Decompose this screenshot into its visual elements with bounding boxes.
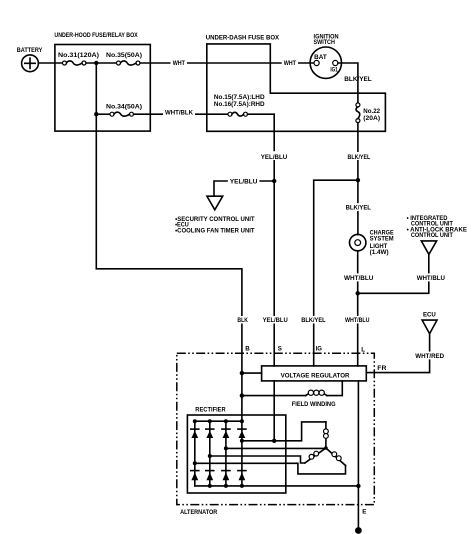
wire E from regulator to ground: [357, 381, 359, 530]
arrow from ECU: [422, 320, 437, 334]
ignition switch: [310, 33, 341, 78]
wire YEL/BLU from fuse down to regulator S: [248, 114, 275, 366]
node E bus junction: [356, 484, 360, 488]
svg-text:FR: FR: [377, 365, 387, 372]
wire B stub to regulator: [242, 372, 262, 374]
wire BLK: down from junction, to alternator B: [96, 63, 242, 421]
wire WHT/BLU from charge light to alternator L: [357, 251, 359, 366]
arrow to security control unit: [207, 196, 223, 210]
wire branch to integrated control unit arrow: [358, 255, 429, 294]
svg-text:SWITCH: SWITCH: [314, 39, 336, 46]
stator winding left coil: [305, 448, 326, 463]
stator winding top coil: [324, 422, 329, 448]
diode column 2: [206, 421, 214, 486]
rectifier box: [187, 406, 285, 493]
svg-text:BLK: BLK: [237, 317, 248, 324]
svg-text:E: E: [362, 508, 366, 515]
svg-text:WHT/BLU: WHT/BLU: [417, 275, 446, 282]
svg-text:WHT/BLU: WHT/BLU: [344, 275, 374, 282]
svg-text:BLK/YEL: BLK/YEL: [344, 76, 372, 83]
wire main WHT into ignition switch: [207, 62, 314, 64]
wire BLK/YEL down to charge light: [357, 123, 359, 235]
svg-text:S: S: [278, 346, 282, 353]
svg-text:VOLTAGE REGULATOR: VOLTAGE REGULATOR: [281, 373, 350, 380]
svg-text:WHT: WHT: [173, 60, 185, 67]
svg-text:No.34(50A): No.34(50A): [106, 103, 142, 110]
voltage regulator U1: [262, 366, 367, 381]
wire bottom bus: [195, 485, 359, 487]
svg-text:BLK/YEL: BLK/YEL: [348, 154, 371, 161]
arrow to integrated control unit / abs control unit: [421, 241, 436, 255]
wire battery to under-hood box: [38, 62, 62, 64]
svg-text:L: L: [361, 346, 365, 353]
wire neutral (col3) to stator centre: [226, 447, 326, 449]
svg-text:ECU: ECU: [423, 312, 436, 319]
wire WHT to under-dash box: [140, 62, 207, 64]
svg-text:IG1: IG1: [330, 67, 338, 74]
fuse No.22(20A): [356, 103, 381, 123]
node S sense tap: [272, 439, 276, 443]
wire YEL/BLU branch to arrow: [214, 181, 274, 196]
svg-text:UNDER-HOOD FUSE/RELAY BOX: UNDER-HOOD FUSE/RELAY BOX: [54, 32, 138, 39]
wire WHT/RED FR from ECU to regulator: [366, 334, 429, 373]
battery: [17, 47, 43, 71]
node stator centre: [324, 446, 328, 450]
svg-text:BLK/YEL: BLK/YEL: [346, 205, 371, 212]
fuse No.34(50A): [106, 103, 142, 116]
stator winding right coil: [326, 448, 346, 466]
node junction under-hood lower wire: [94, 112, 98, 116]
node YEL/BLU branch: [272, 179, 276, 183]
svg-text:(1.4W): (1.4W): [370, 249, 389, 256]
under-hood fuse/relay box: [54, 32, 150, 131]
svg-text:•COOLING FAN TIMER UNIT: •COOLING FAN TIMER UNIT: [175, 228, 255, 235]
svg-text:No.22: No.22: [363, 108, 380, 115]
svg-text:BLK/YEL: BLK/YEL: [301, 317, 326, 324]
wire top bus: [195, 420, 242, 422]
diode column 3: [222, 421, 230, 486]
label integrated/anti-lock list: [407, 215, 467, 239]
wire branch to alternator IG: [314, 180, 358, 366]
svg-text:WHT/RED: WHT/RED: [415, 353, 444, 360]
fuse No.31(120A): [58, 52, 99, 65]
wire between fuses: [86, 62, 117, 64]
svg-text:BATTERY: BATTERY: [17, 47, 43, 54]
wire phase 2 (col2) to stator left coil: [210, 456, 305, 463]
svg-text:ALTERNATOR: ALTERNATOR: [180, 509, 218, 516]
node WHT/BLU branch: [356, 291, 360, 295]
fuse No.15(7.5A)/No.16(7.5A): [214, 94, 265, 116]
label security/ecu/cooling list: [175, 216, 255, 235]
node BLK/YEL branch: [356, 178, 360, 182]
svg-text:CONTROL UNIT: CONTROL UNIT: [411, 232, 453, 239]
svg-text:SYSTEM: SYSTEM: [370, 236, 394, 243]
wire labels above alternator: [236, 316, 371, 324]
svg-text:YEL/BLU: YEL/BLU: [261, 154, 288, 161]
node bottom bus junctions: [208, 484, 244, 488]
node B field tap: [240, 393, 244, 397]
ground: [355, 527, 362, 534]
diode column 1: [191, 421, 199, 486]
wire No.34 feed: [96, 113, 110, 115]
svg-text:B: B: [245, 346, 250, 353]
terminal labels B S IG L: [245, 346, 365, 354]
svg-text:No.35(50A): No.35(50A): [106, 52, 142, 59]
svg-text:WHT/BLU: WHT/BLU: [345, 317, 370, 324]
svg-text:No.16(7.5A):RHD: No.16(7.5A):RHD: [214, 101, 265, 108]
svg-text:FIELD WINDING: FIELD WINDING: [292, 401, 336, 408]
charge system light: [350, 229, 394, 256]
svg-text:UNDER-DASH FUSE BOX: UNDER-DASH FUSE BOX: [206, 34, 280, 41]
svg-text:BAT: BAT: [314, 54, 327, 61]
svg-text:YEL/BLU: YEL/BLU: [263, 317, 289, 324]
svg-text:YEL/BLU: YEL/BLU: [230, 179, 258, 186]
svg-text:IG: IG: [316, 346, 322, 353]
svg-text:RECTIFIER: RECTIFIER: [195, 406, 226, 413]
wire BLK/YEL from IG1 down through No.22: [338, 63, 358, 103]
wire phase 1 (col4) to stator top coil: [242, 422, 326, 441]
wire phase 3 (col1) to stator right coil: [195, 463, 346, 474]
under-dash fuse box: [206, 34, 386, 131]
svg-text:WHT/BLK: WHT/BLK: [165, 109, 194, 116]
wire WHT/BLK to under-dash box: [134, 113, 229, 115]
node B stub: [240, 371, 244, 375]
svg-text:No.31(120A): No.31(120A): [58, 52, 99, 59]
field winding L2: [242, 381, 342, 408]
node phase1 tap: [240, 439, 244, 443]
alternator box: [177, 353, 374, 516]
svg-text:(20A): (20A): [363, 115, 380, 122]
node top bus junctions: [193, 419, 244, 423]
diode column 4: [238, 421, 246, 486]
wire S sense from regulator down to rectifier phase: [273, 381, 275, 441]
node junction under-hood main wire: [94, 61, 98, 65]
svg-text:WHT: WHT: [284, 60, 296, 67]
fuse No.35(50A): [106, 52, 142, 65]
